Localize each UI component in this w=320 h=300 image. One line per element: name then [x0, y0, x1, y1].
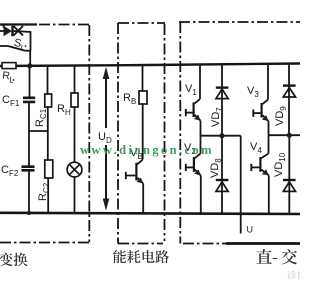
svg-text:U: U	[247, 225, 254, 235]
svg-text:www.diangon.com: www.diangon.com	[80, 143, 214, 157]
